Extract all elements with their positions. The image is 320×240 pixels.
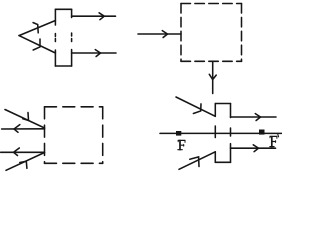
focus marker F' (right filled square on axis) <box>259 130 265 135</box>
box B4 left edge (solid-dash-solid) <box>214 104 216 163</box>
ray R1d (fig1 lower exit ray) <box>72 50 116 57</box>
label F' (serif glyph drawn with strokes) <box>270 136 277 146</box>
ray R3b (fig3 upper leftward exit ray) <box>2 125 45 133</box>
box B1 right edge (solid-dashed-solid) <box>71 9 73 66</box>
ray R3c (fig3 lower incoming diagonal) <box>6 153 45 171</box>
box B2 (fig2 dashed black box) <box>181 4 242 62</box>
ray R2a (fig2 incoming horizontal ray) <box>138 31 181 38</box>
ray R4d (fig4 lower exit ray rightward) <box>231 145 276 152</box>
box B4 top edge <box>215 103 230 105</box>
ray R3a (fig3 upper incoming diagonal) <box>5 110 45 129</box>
ray R3d (fig3 lower leftward exit ray) <box>1 148 45 156</box>
box B1 bottom edge <box>55 65 71 67</box>
prime mark of F' <box>278 134 279 137</box>
label F (serif glyph drawn with strokes) <box>178 140 185 149</box>
box B4 right edge (solid-dash-solid) <box>230 104 232 163</box>
ray R4c (fig4 lower incoming diagonal) <box>179 152 215 170</box>
box B1 top edge <box>55 8 71 10</box>
ray R1a (fig1 upper diverging ray from point source) <box>19 21 55 36</box>
box B4 bottom edge <box>215 161 230 163</box>
ray R1c (fig1 upper exit ray) <box>72 13 116 20</box>
ray R1b (fig1 lower diverging ray from point source) <box>19 36 55 53</box>
ray R4a (fig4 upper incoming diagonal) <box>176 97 215 116</box>
box B1 left edge (solid-dashed-solid) <box>54 9 56 66</box>
ray R2b (fig2 downward exit ray) <box>209 61 216 93</box>
axis (fig4 principal axis) <box>160 132 282 134</box>
box B3 (fig3 dashed black box) <box>45 107 103 164</box>
ray R4b (fig4 upper exit ray rightward) <box>231 114 277 121</box>
focus marker F (left filled square on axis) <box>176 131 181 136</box>
